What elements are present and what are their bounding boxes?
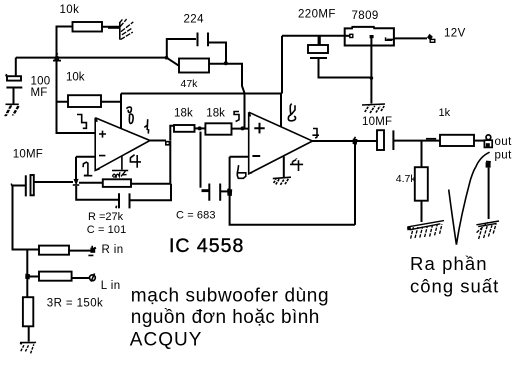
svg-text:R in: R in [102, 244, 124, 256]
svg-text:10MF: 10MF [362, 116, 392, 128]
svg-text:1k: 1k [439, 107, 451, 119]
svg-text:công suất: công suất [410, 275, 499, 296]
svg-text:18k: 18k [206, 108, 225, 120]
svg-text:MF: MF [31, 87, 48, 99]
svg-text:4.7k: 4.7k [396, 173, 417, 185]
svg-text:10k: 10k [60, 4, 80, 16]
svg-text:100: 100 [31, 75, 51, 87]
svg-text:3R = 150k: 3R = 150k [47, 298, 103, 310]
svg-text:224: 224 [184, 14, 205, 26]
svg-text:ACQUY: ACQUY [130, 329, 203, 350]
svg-text:IC 4558: IC 4558 [169, 235, 244, 257]
svg-text:10MF: 10MF [13, 148, 43, 160]
svg-text:put: put [495, 149, 512, 161]
svg-text:C = 101: C = 101 [87, 224, 127, 236]
svg-text:220MF: 220MF [298, 8, 336, 20]
svg-text:nguồn đơn hoặc bình: nguồn đơn hoặc bình [131, 307, 320, 328]
svg-text:mạch subwoofer dùng: mạch subwoofer dùng [131, 285, 329, 306]
svg-text:C = 683: C = 683 [176, 210, 216, 222]
svg-text:L in: L in [101, 280, 121, 292]
svg-text:R =27k: R =27k [88, 211, 124, 223]
svg-text:Ra phần: Ra phần [410, 253, 488, 274]
svg-text:7809: 7809 [352, 10, 379, 22]
svg-text:18k: 18k [174, 108, 193, 120]
svg-text:12V: 12V [444, 28, 466, 40]
svg-text:out: out [495, 136, 512, 148]
svg-text:10k: 10k [66, 72, 85, 84]
svg-text:47k: 47k [181, 78, 199, 90]
